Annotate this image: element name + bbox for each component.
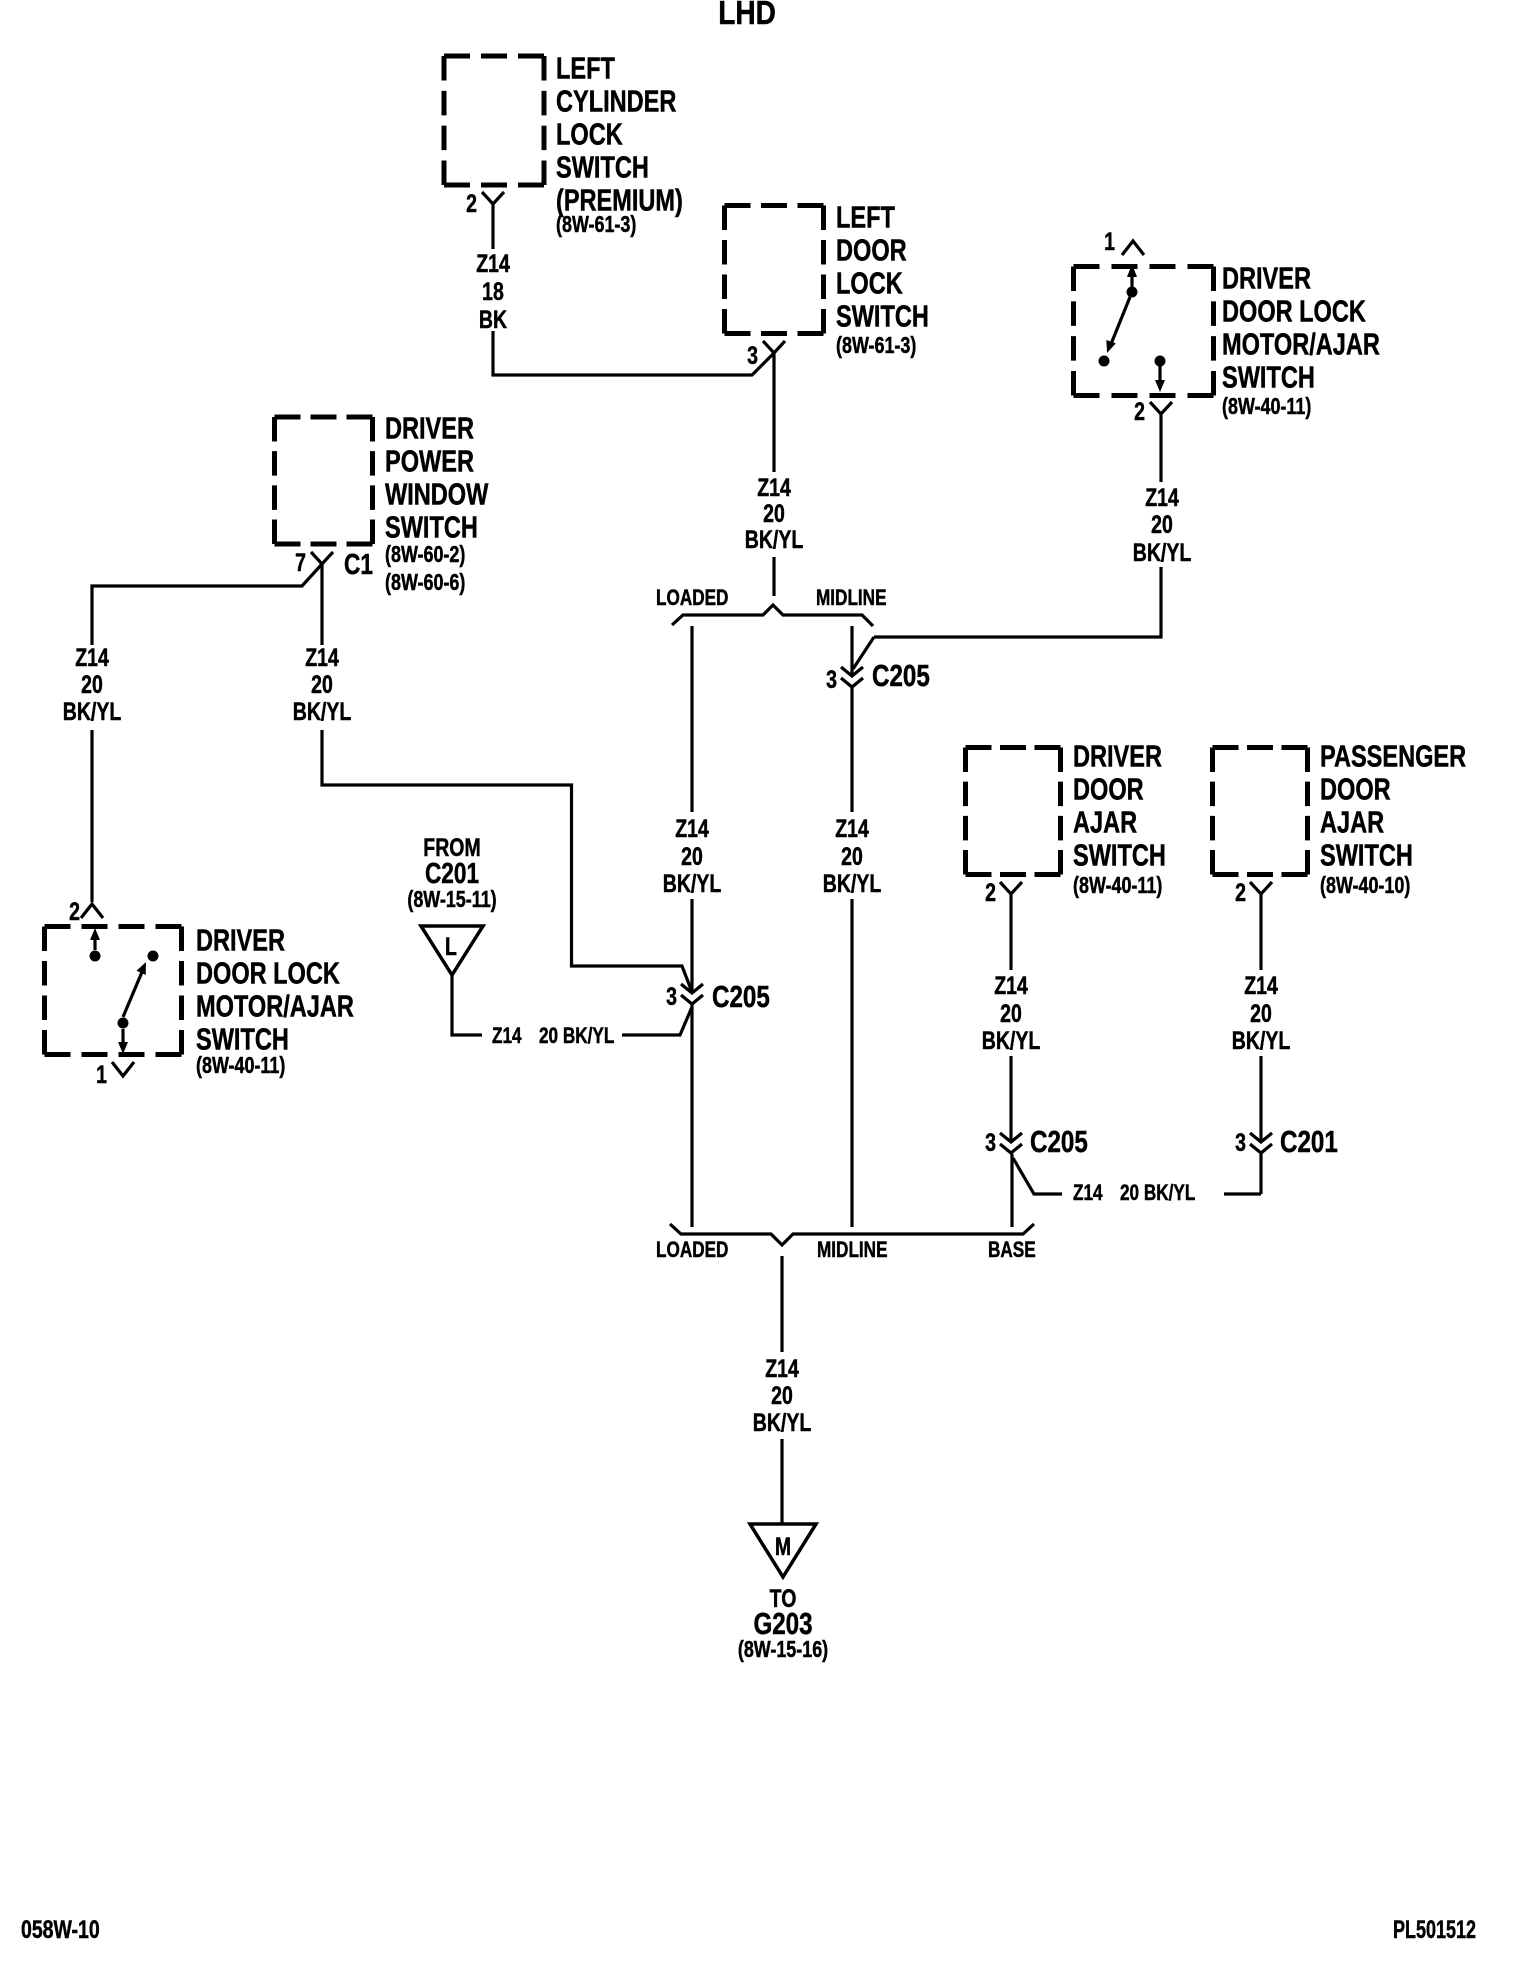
wire diagonal into C205 [853,637,874,669]
pin 2 connector of lower driver door lock motor/ajar switch [81,904,103,918]
svg-text:BK: BK [479,306,507,334]
label LEFT DOOR LOCK SWITCH [836,199,929,333]
label PASSENGER DOOR AJAR SWITCH [1320,738,1466,872]
wire Z14 20 BK/YL from pin 2 [1159,414,1162,482]
svg-text:C201: C201 [1280,1124,1338,1159]
svg-text:DOOR: DOOR [836,232,907,267]
svg-text:3: 3 [666,983,677,1011]
svg-text:C205: C205 [712,979,770,1014]
svg-text:18: 18 [482,278,504,306]
bus [670,1224,1034,1245]
svg-text:Z14: Z14 [675,815,709,843]
switch symbol inside driver door lock motor/ajar switch [1099,264,1166,392]
svg-text:Z14: Z14 [1244,972,1278,1000]
svg-text:20: 20 [763,500,785,528]
wire Z14 20 BK/YL from pin 2 [1009,894,1012,970]
svg-text:AJAR: AJAR [1320,804,1384,839]
svg-text:SWITCH: SWITCH [196,1021,289,1056]
svg-text:MIDLINE: MIDLINE [817,1238,888,1263]
svg-text:MOTOR/AJAR: MOTOR/AJAR [1222,326,1380,361]
svg-text:DOOR LOCK: DOOR LOCK [1222,293,1366,328]
svg-text:SWITCH: SWITCH [1320,837,1413,872]
pin 1 connector of driver door lock motor/ajar switch [1122,241,1144,255]
svg-text:LHD: LHD [718,0,776,32]
wire Z14 20 BK/YL to connector C205 [322,730,692,992]
svg-text:20: 20 [311,671,333,699]
wire label Z14 20 BK/YL [753,1355,811,1437]
switch arm to pin 2 [1158,366,1161,381]
wire Z14 20 BK/YL branch to driver door lock motor/ajar switch [92,564,322,645]
label DRIVER POWER WINDOW SWITCH [385,410,488,544]
svg-text:Z14: Z14 [835,815,869,843]
label FROM [423,834,480,862]
svg-text:Z14: Z14 [75,644,109,672]
connector C205 (midline branch) pin 3 [841,667,863,687]
svg-text:LOCK: LOCK [836,265,903,300]
wire Z14 20 BK/YL to C205 [1009,1056,1012,1142]
wire splice to C201 branch [1224,1192,1261,1195]
component DRIVER POWER WINDOW SWITCH [275,417,373,544]
wire from C205 to lower bundle BASE [1010,1154,1013,1227]
svg-text:BK/YL: BK/YL [1133,539,1191,567]
svg-text:7: 7 [295,549,306,577]
svg-text:DOOR: DOOR [1073,771,1144,806]
pin 2 connector of passenger door ajar switch [1250,882,1272,894]
wire from C205 to lower bundle [690,1005,693,1227]
svg-text:2: 2 [1134,398,1145,426]
svg-text:20 BK/YL: 20 BK/YL [1120,1181,1195,1206]
svg-text:Z14: Z14 [765,1355,799,1383]
svg-text:(8W-40-11): (8W-40-11) [1073,873,1162,899]
wire Z14 20 BK/YL from pin 2 [1259,894,1262,970]
svg-text:PASSENGER: PASSENGER [1320,738,1466,773]
svg-text:(8W-60-2): (8W-60-2) [385,542,465,568]
wire label Z14 20 BK/YL [1133,484,1191,567]
svg-text:(8W-15-11): (8W-15-11) [407,887,496,913]
wire branch to passenger splice [1013,1158,1062,1194]
svg-text:3: 3 [826,666,837,694]
svg-text:M: M [775,1533,791,1561]
wire from C205 down [850,688,853,812]
switch blade [1111,297,1130,344]
svg-text:(8W-15-16): (8W-15-16) [738,1637,828,1663]
svg-text:L: L [445,933,457,961]
pin 3 connector of left door lock switch [763,341,785,353]
svg-text:LEFT: LEFT [836,199,895,234]
svg-text:DRIVER: DRIVER [385,410,474,445]
pin 1 connector of lower driver door lock motor/ajar switch [112,1062,134,1076]
svg-text:LOADED: LOADED [656,586,728,611]
connector C201 pin 3 [1250,1133,1272,1153]
svg-text:20: 20 [1000,1000,1022,1028]
wire Z14 20 BK/YL to connector C205 [874,567,1161,637]
pin 2 connector of driver door lock motor/ajar switch [1150,402,1172,414]
svg-text:DOOR LOCK: DOOR LOCK [196,955,340,990]
svg-text:DRIVER: DRIVER [196,922,285,957]
svg-text:Z14: Z14 [1145,484,1179,512]
switch blade [123,972,142,1017]
svg-text:WINDOW: WINDOW [385,476,488,511]
wire LOADED branch upper [690,626,693,812]
svg-text:DRIVER: DRIVER [1073,738,1162,773]
wire Z14 20 BK/YL to C201 [1259,1056,1262,1142]
svg-text:PL501512: PL501512 [1393,1915,1476,1944]
svg-text:20 BK/YL: 20 BK/YL [539,1024,614,1049]
svg-text:3: 3 [1235,1129,1246,1157]
svg-text:MIDLINE: MIDLINE [816,586,887,611]
svg-text:DRIVER: DRIVER [1222,260,1311,295]
wire label Z14 20 BK/YL [663,815,721,898]
wire Z14 18 BK lower segment to left door lock switch pin 3 [493,331,774,375]
svg-text:1: 1 [96,1061,107,1089]
switch arm to pin 2 [93,936,96,950]
svg-text:Z14: Z14 [476,250,510,278]
pin 2 connector of driver door ajar switch [1000,882,1022,894]
svg-text:2: 2 [985,879,996,907]
svg-text:C205: C205 [872,658,930,693]
svg-text:2: 2 [466,190,477,218]
wire from C201 to splice [1259,1154,1262,1194]
wire MIDLINE branch to lower bundle [850,899,853,1227]
svg-text:BK/YL: BK/YL [1232,1027,1290,1055]
svg-text:LOCK: LOCK [556,116,623,151]
wire label Z14 20 BK/YL [63,644,121,726]
svg-text:AJAR: AJAR [1073,804,1137,839]
svg-text:BK/YL: BK/YL [982,1027,1040,1055]
wire label Z14 20 BK/YL [1232,972,1290,1055]
wire LOADED branch to C205 [690,899,693,993]
label LEFT CYLINDER LOCK SWITCH (PREMIUM) [556,50,683,217]
svg-text:2: 2 [1235,879,1246,907]
connector C205 (loaded branch) pin 3 [681,984,703,1004]
svg-text:SWITCH: SWITCH [1073,837,1166,872]
svg-text:BK/YL: BK/YL [745,526,803,554]
svg-text:G203: G203 [753,1606,812,1641]
svg-text:(8W-40-10): (8W-40-10) [1320,873,1410,899]
svg-text:3: 3 [985,1129,996,1157]
svg-text:BASE: BASE [988,1238,1036,1263]
component PASSENGER DOOR AJAR SWITCH [1213,748,1308,875]
component LEFT CYLINDER LOCK SWITCH (PREMIUM) [444,56,544,185]
svg-text:C1: C1 [344,547,373,580]
wire into connector C205 [622,1007,692,1035]
label DRIVER DOOR LOCK MOTOR/AJAR SWITCH [1222,260,1380,394]
svg-text:058W-10: 058W-10 [21,1916,100,1944]
svg-text:20: 20 [1250,1000,1272,1028]
svg-text:Z14: Z14 [1073,1181,1103,1206]
connector C205 (driver ajar) pin 3 [1000,1133,1022,1153]
wire Z14 20 BK/YL to pin 2 [90,730,93,902]
svg-text:SWITCH: SWITCH [836,298,929,333]
wire label Z14 20 BK/YL [293,644,351,726]
svg-text:Z14: Z14 [305,644,339,672]
wire Z14 20 BK/YL to loaded/midline bundle [772,557,775,596]
svg-text:MOTOR/AJAR: MOTOR/AJAR [196,988,354,1023]
component LEFT DOOR LOCK SWITCH [725,206,824,334]
svg-text:(8W-60-6): (8W-60-6) [385,570,465,596]
wire MIDLINE branch upper [850,626,853,676]
svg-text:Z14: Z14 [994,972,1028,1000]
pin 7 connector C1 of driver power window switch [311,552,333,564]
switch arm to pin 1 [1130,268,1133,290]
svg-text:20: 20 [1151,511,1173,539]
pin 2 connector of left cylinder lock switch [482,192,504,204]
svg-text:3: 3 [747,342,758,370]
svg-text:LEFT: LEFT [556,50,615,85]
bus [672,605,873,626]
wire from connector L [452,975,482,1035]
component DRIVER DOOR AJAR SWITCH [966,748,1061,875]
svg-text:SWITCH: SWITCH [385,509,478,544]
svg-text:2: 2 [69,898,80,926]
svg-text:SWITCH: SWITCH [556,149,649,184]
svg-text:20: 20 [771,1382,793,1410]
switch arm to pin 1 [121,1029,124,1044]
svg-text:BK/YL: BK/YL [753,1409,811,1437]
wire label Z14 20 BK/YL [823,815,881,898]
wire Z14 20 BK/YL from pin 3 [772,353,775,472]
wire label Z14 20 BK/YL [745,474,803,554]
svg-text:DOOR: DOOR [1320,771,1391,806]
svg-text:Z14: Z14 [757,474,791,502]
svg-text:(8W-40-11): (8W-40-11) [1222,394,1311,420]
svg-text:LOADED: LOADED [656,1238,728,1263]
wire Z14 20 BK/YL to ground upper [780,1256,783,1352]
svg-text:Z14: Z14 [492,1024,522,1049]
svg-text:BK/YL: BK/YL [663,870,721,898]
svg-text:20: 20 [841,843,863,871]
svg-text:SWITCH: SWITCH [1222,359,1315,394]
wire Z14 20 BK/YL from pin 7 [320,564,323,645]
switch symbol inside lower driver door lock motor/ajar switch [90,928,159,1054]
component DRIVER DOOR LOCK MOTOR/AJAR SWITCH (lower) [45,927,182,1055]
svg-text:CYLINDER: CYLINDER [556,83,676,118]
svg-text:(8W-61-3): (8W-61-3) [836,333,916,359]
off-page connector L from C201 [421,926,483,975]
label DRIVER DOOR LOCK MOTOR/AJAR SWITCH [196,922,354,1056]
component DRIVER DOOR LOCK MOTOR/AJAR SWITCH (door) [1074,267,1214,396]
wire Z14 18 BK upper segment [491,204,494,249]
wire Z14 20 BK/YL to ground lower [780,1439,783,1524]
svg-text:POWER: POWER [385,443,474,478]
svg-text:C201: C201 [425,856,479,889]
wire label Z14 20 BK/YL [982,972,1040,1055]
svg-text:(8W-40-11): (8W-40-11) [196,1053,285,1079]
svg-text:(8W-61-3): (8W-61-3) [556,212,636,238]
label DRIVER DOOR AJAR SWITCH [1073,738,1166,872]
off-page connector M to G203 [750,1524,816,1577]
wire label Z14 18 BK [476,250,510,334]
svg-text:C205: C205 [1030,1124,1088,1159]
svg-text:20: 20 [81,671,103,699]
svg-text:BK/YL: BK/YL [63,698,121,726]
svg-text:BK/YL: BK/YL [293,698,351,726]
svg-text:20: 20 [681,843,703,871]
svg-text:1: 1 [1104,228,1115,256]
svg-text:BK/YL: BK/YL [823,870,881,898]
